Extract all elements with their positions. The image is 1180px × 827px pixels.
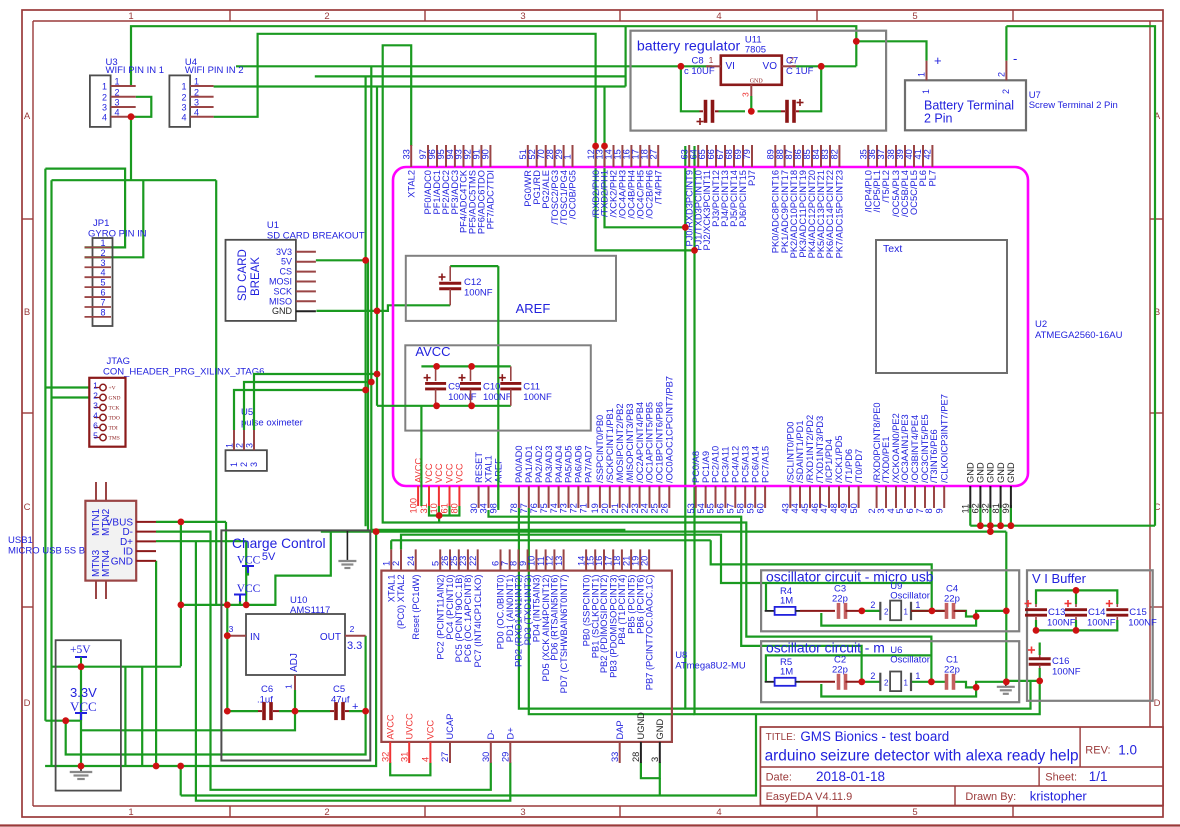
wire U4.1 to U2 pin13 (214, 85, 626, 87)
group box oscillator circuit - m (761, 640, 1019, 703)
wire 3.3V net (45, 720, 81, 722)
svg-text:1M: 1M (780, 596, 793, 607)
svg-text:3.3V: 3.3V (70, 685, 97, 700)
svg-text:GND: GND (109, 396, 121, 402)
svg-text:100NF: 100NF (1128, 618, 1157, 629)
svg-text:Reset (PC1dW): Reset (PC1dW) (411, 575, 421, 640)
svg-text:PC4/A12: PC4/A12 (731, 446, 741, 483)
svg-text:81: 81 (991, 503, 1001, 513)
svg-text:3V3: 3V3 (276, 247, 292, 257)
svg-text:Sheet:: Sheet: (1045, 772, 1077, 784)
svg-text:/RXD1INT2/PD2: /RXD1INT2/PD2 (805, 415, 815, 483)
svg-text:PA3/AD3: PA3/AD3 (544, 445, 554, 483)
wire battery VO out (792, 65, 856, 67)
wire osc1 out segs (862, 610, 881, 612)
svg-text:1: 1 (381, 561, 391, 566)
IC U11 7805 (706, 55, 796, 97)
svg-text:77: 77 (519, 503, 529, 513)
svg-text:59: 59 (745, 503, 755, 513)
svg-text:2 Pin: 2 Pin (924, 112, 953, 126)
wire U8 power bracket (390, 762, 430, 775)
U8 top pins (381, 549, 654, 693)
svg-text:49: 49 (839, 503, 849, 513)
svg-text:/TXD0/PE1: /TXD0/PE1 (881, 436, 891, 483)
wire gnd drop to osc (1005, 532, 1007, 682)
connector U3 WIFI PIN IN 1 (90, 57, 164, 127)
text box inside U2 (876, 240, 1007, 373)
wire U10 in feed (226, 605, 228, 711)
svg-text:VCC: VCC (237, 555, 261, 567)
group box power flags (56, 640, 121, 790)
svg-text:/SDAINT1/PD1: /SDAINT1/PD1 (795, 420, 805, 483)
svg-text:1: 1 (904, 608, 909, 617)
svg-text:-: - (1013, 51, 1017, 66)
wire xtal1 line to osc1 entry (391, 539, 711, 541)
wire bundle x371 VI net vertical (370, 66, 372, 530)
svg-text:/T3INT6/PE6: /T3INT6/PE6 (929, 429, 939, 483)
svg-text:50: 50 (849, 503, 859, 513)
svg-text:47uf: 47uf (331, 695, 350, 706)
svg-text:PC6 (OC.1APCINT8): PC6 (OC.1APCINT8) (463, 575, 473, 663)
svg-text:PA0/AD0: PA0/AD0 (514, 445, 524, 483)
svg-text:5V: 5V (262, 551, 276, 563)
svg-text:2: 2 (93, 391, 98, 401)
svg-text:IN: IN (250, 632, 260, 643)
capacitor C16 100NF (1028, 647, 1081, 678)
svg-text:2: 2 (100, 248, 105, 258)
svg-text:53: 53 (686, 503, 696, 513)
svg-text:PC1/A9: PC1/A9 (701, 451, 711, 483)
svg-text:100NF: 100NF (464, 288, 493, 299)
svg-text:oscillator circuit - m: oscillator circuit - m (766, 640, 885, 656)
svg-text:8: 8 (100, 307, 105, 317)
svg-text:/OC1BPCINT6/PB6: /OC1BPCINT6/PB6 (655, 402, 665, 483)
svg-text:DAP: DAP (615, 720, 625, 739)
svg-text:/OC1APCINT5/PB5: /OC1APCINT5/PB5 (645, 402, 655, 483)
capacitor C2 22p (832, 655, 862, 690)
svg-text:U2: U2 (1035, 319, 1047, 330)
svg-text:PC3/A11: PC3/A11 (721, 446, 731, 483)
wire left rail x45 (44, 169, 46, 721)
svg-text:28: 28 (631, 752, 641, 762)
svg-text:23: 23 (458, 556, 468, 566)
svg-text:73: 73 (559, 503, 569, 513)
svg-text:PD7 (CTSHWBAIN6T0INT7): PD7 (CTSHWBAIN6T0INT7) (559, 575, 569, 694)
svg-text:2: 2 (884, 678, 889, 687)
wire y529 horizontal (371, 529, 625, 531)
wire top horizontal y87 GND branch (624, 26, 626, 86)
svg-text:XTAL1: XTAL1 (386, 575, 396, 603)
svg-text:4: 4 (716, 807, 721, 818)
capacitor C5 47uf (330, 684, 358, 720)
svg-text:GND: GND (986, 462, 996, 483)
svg-text:B: B (24, 307, 30, 318)
svg-text:72: 72 (569, 503, 579, 513)
wire bundle x365 (365, 76, 367, 526)
svg-text:SCK: SCK (273, 286, 292, 296)
svg-text:100NF: 100NF (1087, 618, 1116, 629)
U2 top pins (401, 145, 937, 258)
svg-text:90: 90 (481, 149, 491, 159)
wire PA0 long vertical (519, 508, 685, 709)
wire USB D+ net (156, 540, 246, 542)
svg-text:PK7/ADC15PCINT23: PK7/ADC15PCINT23 (835, 170, 845, 258)
wire osc2 R5 loop (766, 655, 932, 681)
svg-text:11: 11 (961, 504, 971, 514)
svg-text:JP1: JP1 (93, 218, 109, 229)
svg-text:2: 2 (996, 72, 1006, 77)
svg-text:1: 1 (194, 77, 199, 87)
svg-text:10: 10 (429, 503, 439, 513)
svg-text:1: 1 (229, 462, 239, 467)
svg-text:32: 32 (380, 752, 390, 762)
wire VCC pins bracket (429, 506, 459, 516)
svg-text:Drawn By:: Drawn By: (965, 791, 1016, 803)
svg-text:RESET: RESET (474, 452, 484, 483)
svg-text:1: 1 (102, 82, 107, 92)
wire U3.4 down (130, 117, 132, 180)
capacitor C6 .1uf (257, 684, 279, 720)
title block (760, 727, 1163, 806)
svg-text:4: 4 (716, 11, 721, 22)
wire C16 net (1039, 643, 1041, 656)
wire top rail GND net (131, 26, 856, 86)
svg-text:kristopher: kristopher (1030, 789, 1088, 804)
svg-text:26: 26 (660, 503, 670, 513)
svg-text:/OC0B/PG5: /OC0B/PG5 (568, 170, 578, 219)
svg-text:5V: 5V (281, 257, 292, 267)
svg-text:23: 23 (630, 503, 640, 513)
svg-text:9: 9 (934, 508, 944, 513)
wire U2 pin12 down long to C16 area (596, 146, 695, 250)
svg-text:20: 20 (639, 556, 649, 566)
svg-text:2: 2 (1001, 89, 1011, 94)
wire x216 down (215, 180, 217, 605)
wire U8 gnd bracket (641, 762, 660, 778)
svg-text:AVCC: AVCC (415, 344, 450, 359)
svg-text:2: 2 (235, 443, 245, 448)
svg-text:5: 5 (100, 278, 105, 288)
svg-text:3: 3 (194, 98, 199, 108)
svg-text:32: 32 (981, 503, 991, 513)
wire osc2 gnd U (821, 682, 1006, 697)
svg-text:/SCKPCINT1/PB1: /SCKPCINT1/PB1 (605, 408, 615, 483)
svg-text:2: 2 (181, 92, 186, 102)
svg-text:C8: C8 (692, 56, 704, 67)
wire USB GND net (155, 561, 157, 766)
wire C12 bottom to SD GND (316, 305, 450, 311)
svg-text:PB7 (PCINT7OC.0AOC.1C): PB7 (PCINT7OC.0AOC.1C) (644, 575, 654, 691)
wire PJ0 long vertical (685, 146, 1030, 709)
svg-text:55: 55 (706, 503, 716, 513)
svg-text:C5: C5 (333, 684, 345, 695)
svg-text:Battery Terminal: Battery Terminal (924, 99, 1014, 113)
wire osc1 R4 branch (765, 583, 767, 611)
svg-text:PA5/AD5: PA5/AD5 (564, 445, 574, 483)
svg-text:3: 3 (650, 757, 660, 762)
svg-text:1: 1 (921, 89, 931, 94)
svg-text:60: 60 (755, 503, 765, 513)
group box AREF (406, 256, 616, 321)
svg-text:6: 6 (93, 421, 98, 431)
svg-text:3: 3 (93, 401, 98, 411)
svg-text:2: 2 (884, 608, 889, 617)
svg-text:U8: U8 (675, 650, 687, 661)
svg-text:GND: GND (750, 79, 764, 85)
wire bottom left verticals (124, 667, 126, 766)
svg-text:PA1/AD1: PA1/AD1 (524, 445, 534, 483)
wire charge bottom exit (81, 711, 295, 730)
wire charge control VCC rail (181, 532, 331, 605)
svg-text:3: 3 (100, 258, 105, 268)
svg-text:VO: VO (763, 61, 778, 72)
svg-text:22: 22 (620, 503, 630, 513)
svg-text:GND: GND (1006, 462, 1016, 483)
svg-text:C16: C16 (1052, 656, 1069, 667)
svg-text:100: 100 (408, 498, 418, 514)
svg-text:/XCK1/PD5: /XCK1/PD5 (834, 435, 844, 483)
wire PA1 long vertical (529, 508, 695, 714)
svg-text:4: 4 (181, 112, 186, 122)
svg-text:c 10UF: c 10UF (684, 66, 715, 77)
svg-text:XTAL1: XTAL1 (484, 455, 494, 483)
svg-text:PC2 (PCINT11AIN2): PC2 (PCINT11AIN2) (435, 575, 445, 660)
svg-text:25: 25 (650, 503, 660, 513)
svg-text:27: 27 (648, 149, 658, 159)
svg-text:1.0: 1.0 (1118, 743, 1137, 758)
svg-text:battery regulator: battery regulator (637, 39, 741, 55)
svg-text:pulse oximeter: pulse oximeter (241, 418, 303, 429)
svg-text:/CLKOICP3INT7/PE7: /CLKOICP3INT7/PE7 (939, 394, 949, 483)
wire left rail x51 (50, 180, 52, 766)
svg-text:PF7/ADC7TDI: PF7/ADC7TDI (486, 170, 496, 229)
svg-text:4: 4 (93, 411, 98, 421)
wire JTAG pin2 feed (52, 396, 90, 398)
svg-text:VCC: VCC (445, 463, 455, 483)
svg-text:1: 1 (128, 807, 133, 818)
svg-text:2: 2 (870, 600, 875, 610)
IC U5 pulse oximeter (225, 374, 378, 471)
svg-text:C14: C14 (1088, 607, 1105, 618)
svg-text:2: 2 (324, 807, 329, 818)
connector U4 WIFI PIN IN 2 (169, 57, 243, 127)
svg-text:UVCC: UVCC (404, 713, 414, 740)
svg-text:BREAK: BREAK (250, 257, 262, 296)
svg-text:98: 98 (489, 503, 499, 513)
svg-text:100NF: 100NF (483, 392, 512, 403)
svg-text:57: 57 (726, 503, 736, 513)
svg-text:TDO: TDO (109, 416, 120, 422)
svg-text:GND: GND (111, 556, 133, 567)
connector JTAG CON_HEADER_PRG_XILINX_JTAG6 (89, 356, 264, 447)
svg-text:D-: D- (486, 730, 496, 740)
svg-text:C10: C10 (483, 381, 500, 392)
group box V I Buffer (1027, 570, 1153, 701)
svg-text:1: 1 (225, 443, 235, 448)
wire VI net horizontal (236, 65, 712, 67)
wire VIB bottom rail (1036, 620, 1117, 630)
svg-text:1: 1 (284, 684, 294, 689)
ground symbol charge control (346, 531, 348, 561)
svg-text:PC7 (INT4ICP1CLKO): PC7 (INT4ICP1CLKO) (473, 575, 483, 668)
svg-text:PC6/A14: PC6/A14 (750, 446, 760, 483)
svg-text:30: 30 (469, 503, 479, 513)
svg-text:100NF: 100NF (523, 392, 552, 403)
svg-text:2: 2 (114, 87, 119, 97)
svg-text:22p: 22p (832, 594, 848, 605)
svg-text:CON_HEADER_PRG_XILINX_JTAG6: CON_HEADER_PRG_XILINX_JTAG6 (103, 367, 264, 378)
svg-text:C9: C9 (448, 381, 460, 392)
connector Battery Terminal 2 Pin (905, 51, 1118, 130)
svg-text:VCC: VCC (426, 720, 436, 740)
svg-text:C7: C7 (786, 56, 798, 67)
wire ground long y531 (321, 530, 1007, 532)
svg-text:1: 1 (709, 55, 714, 65)
svg-text:oscillator circuit - micro usb: oscillator circuit - micro usb (766, 569, 934, 585)
svg-text:/T1/PD6: /T1/PD6 (844, 449, 854, 483)
svg-text:C15: C15 (1129, 607, 1146, 618)
svg-text:D: D (1154, 698, 1161, 709)
svg-text:3: 3 (102, 103, 107, 113)
svg-text:2: 2 (870, 671, 875, 681)
wire U2 pin13 bend (605, 146, 686, 227)
svg-text:REV:: REV: (1085, 745, 1110, 757)
svg-text:UGND: UGND (636, 712, 646, 740)
svg-text:PA4/AD4: PA4/AD4 (554, 445, 564, 483)
svg-text:1: 1 (904, 678, 909, 687)
svg-text:1/1: 1/1 (1089, 769, 1108, 784)
wire battery C8 C7 bottom (681, 66, 700, 111)
svg-text:arduino seizure detector with: arduino seizure detector with alexa read… (765, 748, 1079, 765)
IC U8 ATmega8U2-MU (381, 571, 746, 742)
svg-text:C6: C6 (261, 684, 273, 695)
resistor R4 1M (765, 586, 835, 615)
capacitor C15 100NF (1106, 600, 1157, 629)
svg-text:1M: 1M (780, 667, 793, 678)
svg-text:3: 3 (245, 443, 255, 448)
wire U2 xtal1 to osc2 (489, 510, 862, 682)
IC U2 ATMEGA2560-16AU (393, 167, 1123, 486)
svg-text:1: 1 (915, 671, 920, 681)
svg-text:PA7/AD7: PA7/AD7 (584, 445, 594, 483)
wire battery plus feed (856, 41, 926, 60)
svg-text:+: + (352, 701, 358, 713)
wire VIB top rail (1036, 590, 1117, 604)
svg-text:/T5/PL2: /T5/PL2 (881, 170, 891, 203)
svg-text:U5: U5 (241, 407, 253, 418)
svg-text:VI: VI (726, 61, 735, 72)
svg-text:U1: U1 (267, 220, 279, 231)
svg-text:47: 47 (819, 503, 829, 513)
svg-text:22: 22 (468, 556, 478, 566)
wire USB D- net (156, 532, 491, 790)
svg-text:43: 43 (781, 503, 791, 513)
svg-text:TITLE:: TITLE: (766, 732, 796, 743)
svg-text:JTAG: JTAG (107, 356, 131, 367)
ground symbol oscillator (1005, 682, 1007, 687)
svg-text:58: 58 (735, 503, 745, 513)
svg-text:EasyEDA V4.11.9: EasyEDA V4.11.9 (766, 791, 853, 803)
wire top horizontal y76 GND spur (315, 75, 626, 77)
wire battery gnd pin3 (750, 96, 752, 111)
svg-text:76: 76 (529, 503, 539, 513)
svg-text:100NF: 100NF (1052, 667, 1081, 678)
wire JP1.1 feed (45, 169, 125, 248)
svg-text:Date:: Date: (766, 772, 792, 784)
svg-text:1: 1 (100, 238, 105, 248)
svg-text:3: 3 (181, 103, 186, 113)
svg-text:Charge Control: Charge Control (232, 536, 326, 551)
svg-text:45: 45 (800, 503, 810, 513)
svg-text:GND: GND (996, 462, 1006, 483)
svg-text:6: 6 (100, 288, 105, 298)
svg-text:2: 2 (239, 462, 249, 467)
svg-text:GND: GND (272, 306, 293, 316)
svg-text:/OC2APCINT4/PB4: /OC2APCINT4/PB4 (635, 402, 645, 483)
svg-text:/T4/PH7: /T4/PH7 (653, 170, 663, 204)
svg-text:USB1: USB1 (8, 535, 33, 546)
svg-text:7805: 7805 (745, 45, 766, 56)
svg-text:+V: +V (109, 386, 116, 392)
svg-text:Screw Terminal 2 Pin: Screw Terminal 2 Pin (1029, 100, 1118, 111)
svg-text:100NF: 100NF (448, 392, 477, 403)
svg-text:99: 99 (1001, 503, 1011, 513)
svg-text:62: 62 (971, 503, 981, 513)
svg-text:/OC3AAIN1/PE3: /OC3AAIN1/PE3 (900, 414, 910, 483)
svg-text:D+: D+ (506, 727, 516, 739)
svg-text:21: 21 (610, 503, 620, 513)
wire +5V drop (80, 667, 82, 766)
wire U8 xtal1 to osc1 (390, 540, 392, 549)
svg-text:4: 4 (114, 107, 119, 117)
svg-text:24: 24 (406, 556, 416, 566)
wire +5V rail (52, 666, 181, 668)
svg-text:1: 1 (917, 72, 927, 77)
wire U8 xtal2 to osc1 (401, 535, 932, 583)
svg-text:V I Buffer: V I Buffer (1032, 571, 1087, 586)
crystal U6 Oscillator (870, 645, 929, 691)
svg-text:5: 5 (430, 561, 440, 566)
svg-text:33: 33 (610, 752, 620, 762)
svg-text:VCC: VCC (434, 463, 444, 483)
group box AVCC (405, 344, 591, 431)
svg-text:VCC: VCC (424, 463, 434, 483)
svg-text:2: 2 (102, 92, 107, 102)
svg-text:PA2/AD2: PA2/AD2 (534, 445, 544, 483)
wire SD 5V net (316, 259, 366, 261)
svg-text:+: + (934, 53, 942, 68)
svg-text:31: 31 (399, 752, 409, 762)
svg-text:3: 3 (520, 807, 525, 818)
svg-text:7: 7 (100, 297, 105, 307)
U2 bottom pins (408, 376, 1016, 513)
svg-text:MISO: MISO (269, 296, 292, 306)
wire U2 gnd rail (969, 505, 971, 526)
svg-text:20: 20 (600, 503, 610, 513)
wire gnd to y531 (989, 526, 991, 532)
svg-text:D: D (24, 698, 31, 709)
svg-text:/OC0AOC1CPCINT7/PB7: /OC0AOC1CPCINT7/PB7 (665, 376, 675, 483)
svg-text:Oscillator: Oscillator (890, 655, 930, 666)
wire top net U4.4 to U2 pin12 (214, 34, 596, 146)
svg-text:13: 13 (554, 556, 564, 566)
svg-text:24: 24 (640, 503, 650, 513)
group box battery regulator (631, 31, 887, 131)
wire AREF net vertical (497, 266, 499, 510)
svg-text:22p: 22p (944, 594, 960, 605)
capacitor C1 22p (944, 655, 960, 690)
svg-text:1: 1 (128, 11, 133, 22)
